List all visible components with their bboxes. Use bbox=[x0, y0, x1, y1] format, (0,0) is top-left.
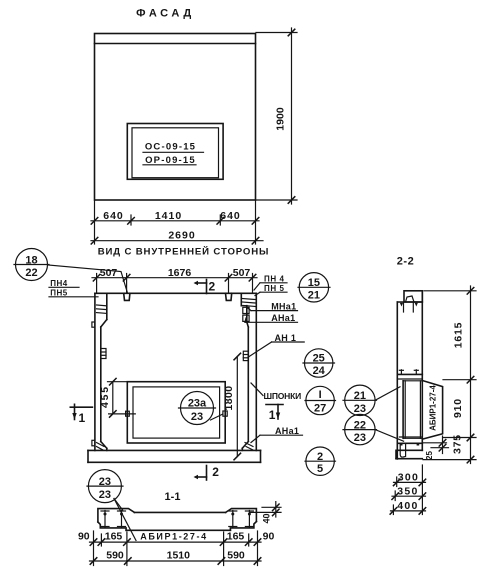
svg-text:400: 400 bbox=[397, 500, 418, 512]
svg-text:21: 21 bbox=[354, 390, 366, 402]
svg-text:23: 23 bbox=[191, 411, 203, 423]
svg-text:23: 23 bbox=[99, 489, 111, 501]
svg-text:23: 23 bbox=[354, 432, 366, 444]
svg-text:ПН5: ПН5 bbox=[50, 288, 68, 297]
svg-text:1676: 1676 bbox=[168, 267, 192, 279]
svg-text:I: I bbox=[319, 389, 322, 401]
svg-text:165: 165 bbox=[227, 531, 245, 543]
svg-text:23: 23 bbox=[354, 403, 366, 415]
svg-text:507: 507 bbox=[233, 267, 251, 279]
svg-text:507: 507 bbox=[100, 267, 118, 279]
svg-text:40: 40 bbox=[262, 513, 272, 523]
svg-text:910: 910 bbox=[452, 398, 464, 418]
svg-text:ПН4: ПН4 bbox=[50, 279, 68, 288]
svg-text:2: 2 bbox=[317, 451, 323, 463]
svg-text:5: 5 bbox=[317, 463, 323, 475]
svg-text:25: 25 bbox=[425, 451, 434, 460]
svg-text:2: 2 bbox=[212, 465, 219, 479]
svg-text:1510: 1510 bbox=[167, 550, 191, 562]
svg-text:21: 21 bbox=[308, 289, 320, 301]
svg-text:23: 23 bbox=[99, 476, 111, 488]
svg-text:455: 455 bbox=[99, 385, 111, 408]
svg-text:90: 90 bbox=[263, 531, 275, 543]
svg-text:590: 590 bbox=[106, 550, 124, 562]
svg-text:22: 22 bbox=[354, 419, 366, 431]
svg-text:ПН 4: ПН 4 bbox=[264, 275, 285, 284]
svg-text:1410: 1410 bbox=[155, 210, 182, 222]
svg-text:АНа1: АНа1 bbox=[275, 426, 299, 436]
svg-text:2-2: 2-2 bbox=[397, 256, 414, 268]
svg-text:25: 25 bbox=[313, 353, 325, 365]
svg-text:2690: 2690 bbox=[168, 230, 195, 242]
svg-text:1: 1 bbox=[269, 408, 276, 422]
svg-text:640: 640 bbox=[103, 210, 124, 222]
svg-text:ОС-09-15: ОС-09-15 bbox=[145, 142, 196, 153]
svg-text:165: 165 bbox=[105, 531, 123, 543]
svg-text:2: 2 bbox=[209, 280, 216, 294]
svg-text:90: 90 bbox=[78, 531, 90, 543]
svg-text:1: 1 bbox=[79, 411, 86, 425]
svg-text:1900: 1900 bbox=[275, 107, 287, 131]
svg-text:ВИД С ВНУТРЕННЕЙ СТОРОНЫ: ВИД С ВНУТРЕННЕЙ СТОРОНЫ bbox=[98, 246, 269, 258]
svg-text:1-1: 1-1 bbox=[165, 491, 181, 503]
svg-text:590: 590 bbox=[227, 550, 245, 562]
svg-text:24: 24 bbox=[313, 365, 326, 377]
svg-text:300: 300 bbox=[398, 471, 419, 483]
svg-text:1800: 1800 bbox=[223, 386, 235, 411]
svg-text:27: 27 bbox=[314, 403, 326, 415]
svg-text:1615: 1615 bbox=[453, 322, 465, 349]
svg-text:АБИР1-27-4: АБИР1-27-4 bbox=[428, 385, 437, 431]
svg-text:18: 18 bbox=[25, 254, 37, 266]
svg-text:350: 350 bbox=[397, 485, 418, 497]
svg-text:ОР-09-15: ОР-09-15 bbox=[145, 155, 196, 166]
svg-text:23а: 23а bbox=[188, 398, 207, 410]
svg-text:22: 22 bbox=[25, 267, 37, 279]
svg-text:ФАСАД: ФАСАД bbox=[136, 8, 195, 20]
svg-text:15: 15 bbox=[308, 277, 320, 289]
svg-text:640: 640 bbox=[220, 210, 241, 222]
svg-text:АБИР1-27-4: АБИР1-27-4 bbox=[140, 532, 207, 542]
svg-text:ШПОНКИ: ШПОНКИ bbox=[264, 391, 302, 401]
svg-text:375: 375 bbox=[452, 434, 464, 454]
